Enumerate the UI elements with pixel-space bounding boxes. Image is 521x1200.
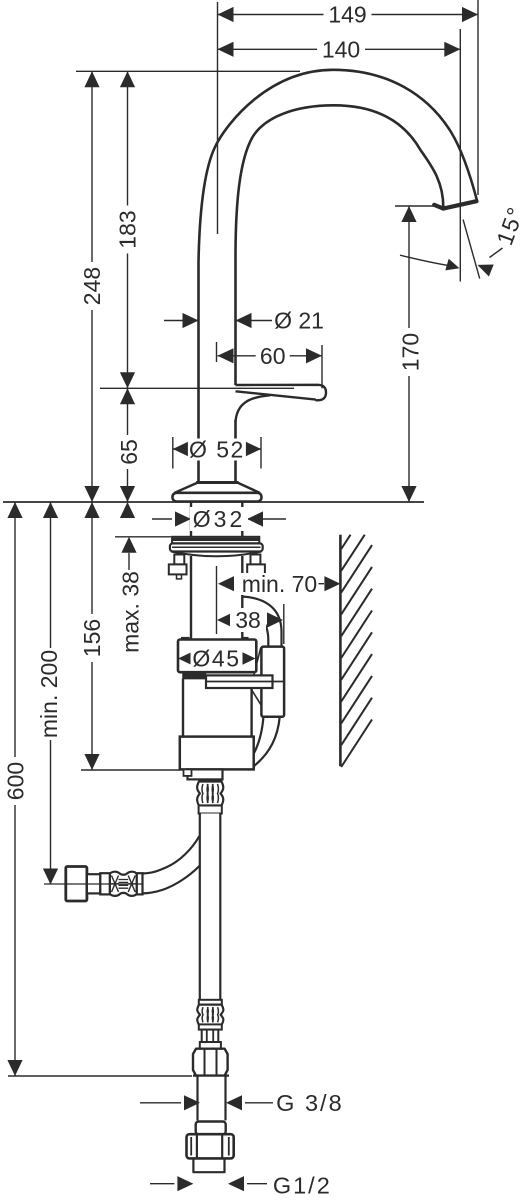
gasket wavy underside (171, 552, 262, 557)
hose side-outlet upper bend (242, 597, 282, 649)
svg-text:60: 60 (260, 343, 286, 369)
pipe below G1/2 nut (193, 1158, 224, 1172)
wall section line (339, 535, 342, 767)
left fitting hex nut (66, 867, 87, 902)
dimension 600 (14, 502, 16, 1076)
top tangent extension line (76, 70, 300, 72)
body tube below collar (183, 679, 252, 737)
svg-text:38: 38 (235, 607, 261, 633)
600 bottom extension line (8, 1075, 192, 1077)
label 15 degrees (491, 203, 521, 249)
escutcheon cone top (196, 481, 238, 484)
15 degree slant line (463, 220, 480, 279)
dimension min 200 (50, 502, 52, 885)
escutcheon cone sides (175, 483, 260, 493)
dimension diameter 45 (178, 651, 194, 666)
left fitting collar (137, 873, 143, 894)
svg-text:170: 170 (398, 333, 424, 371)
mounting washer thick bar (172, 537, 259, 544)
dark step under collar (183, 672, 206, 678)
braid center stripes (119, 880, 129, 889)
svg-text:G1/2: G1/2 (273, 1172, 332, 1198)
upper hose barrel fitting (197, 782, 223, 806)
svg-text:156: 156 (79, 619, 105, 657)
dimension 248 (91, 71, 93, 502)
dimension 140 (218, 48, 461, 50)
spout tip face (434, 201, 476, 208)
svg-text:min. 200: min. 200 (36, 650, 62, 738)
dimension G1/2 (150, 1183, 174, 1185)
centerline extension top (217, 2, 219, 234)
hose lower collar (199, 1000, 222, 1005)
dimension 65 (127, 388, 129, 502)
dimension 170 (408, 206, 410, 502)
escutcheon base (173, 493, 262, 502)
braid diamond pattern left bulb (111, 876, 119, 893)
body shank middle (190, 556, 192, 640)
shank below deck (190, 502, 192, 537)
right mounting lug (251, 555, 261, 565)
156 bottom extension line (81, 769, 180, 771)
svg-text:149: 149 (328, 2, 366, 28)
dimension 183 (127, 71, 129, 388)
dimension 156 (91, 502, 93, 770)
svg-text:max. 38: max. 38 (118, 571, 144, 653)
lower hose barrel fitting (197, 1005, 223, 1025)
curved hose segment from sleeve to block (245, 716, 264, 766)
svg-text:600: 600 (3, 762, 29, 800)
38 extension line right (283, 604, 285, 644)
dimension max 38 (120, 502, 135, 518)
dimension diameter 21 (164, 320, 199, 322)
max 38 extension line (115, 536, 171, 538)
svg-text:Ø45: Ø45 (192, 646, 240, 672)
wall hatching (341, 535, 350, 549)
hose end neck (202, 1030, 219, 1042)
dimension G 3/8 (140, 1102, 181, 1104)
extension line 140 right (459, 29, 461, 282)
side outlet bar (206, 675, 273, 688)
dimension min 70 (218, 576, 234, 591)
spout outer contour (199, 70, 478, 483)
hose end washer (200, 1042, 221, 1049)
extension line 60 right (321, 345, 323, 388)
15 degree arc arrow left (400, 255, 453, 266)
extension lines diameter 52 (172, 437, 174, 469)
curved hose lower outline (143, 866, 200, 894)
left mounting lug (174, 555, 184, 565)
left fitting braided barrel (110, 872, 137, 896)
G1/2 adapter cap (196, 1122, 226, 1135)
vertical supply hose (200, 814, 221, 1001)
15 degree arrow right with leader (477, 265, 493, 277)
hex nut G3/8 (193, 1049, 228, 1076)
svg-text:G 3/8: G 3/8 (276, 1090, 343, 1116)
spout inner contour upper (236, 105, 444, 385)
svg-text:65: 65 (116, 439, 142, 465)
left supply fitting axis line (44, 883, 143, 885)
dimension diameter 32 (152, 518, 172, 520)
extension line 149 right (477, 0, 479, 195)
dimension 60 (218, 355, 323, 357)
lever handle underside (236, 391, 316, 399)
G1/2 adapter nut (187, 1134, 234, 1158)
curved hose visible left of vertical hose - upper outline (143, 836, 200, 873)
svg-text:140: 140 (322, 37, 360, 63)
dimension diameter 52 (173, 448, 261, 450)
braid diamond pattern right bulb (128, 876, 136, 893)
centerline tick mid (216, 342, 218, 362)
mounting gasket (170, 543, 263, 551)
svg-text:183: 183 (115, 210, 141, 248)
fitting plate under body (188, 769, 223, 779)
left fitting neck (87, 874, 100, 893)
G3/8 threaded pipe (198, 1076, 226, 1121)
hidden hose diagonal in sleeve area (254, 648, 261, 676)
outlet level extension line (395, 205, 434, 207)
svg-text:Ø32: Ø32 (193, 506, 245, 532)
svg-text:248: 248 (79, 267, 105, 305)
dimension 38 (217, 612, 233, 627)
hose quick-connect sleeve (261, 647, 284, 717)
svg-text:min. 70: min. 70 (242, 571, 317, 597)
deck line (3, 501, 424, 503)
tube right edge below lever (234, 420, 237, 483)
Oslash45 collar (178, 640, 256, 673)
dimension 149 (218, 14, 479, 16)
lever handle top edge with hook (236, 385, 327, 401)
base block of body (180, 737, 254, 770)
svg-text:Ø 21: Ø 21 (274, 308, 324, 334)
svg-text:Ø 52: Ø 52 (189, 437, 245, 463)
lever extension line (100, 387, 294, 389)
lever underside fillet to tube (236, 395, 271, 421)
